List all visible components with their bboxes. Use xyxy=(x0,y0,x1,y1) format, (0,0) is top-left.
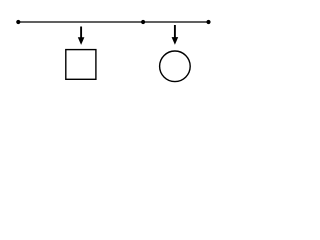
load arrow 2 (feeder to circle load) xyxy=(172,25,179,45)
node (right bus terminal) xyxy=(206,20,210,24)
node (middle bus junction) xyxy=(141,20,145,24)
square load (box symbol) xyxy=(66,50,96,80)
node (left bus terminal) xyxy=(16,20,20,24)
circular load (machine symbol) xyxy=(160,51,191,82)
wire (horizontal bus line) xyxy=(18,21,208,23)
load arrow 1 (feeder to square load) xyxy=(78,27,85,45)
